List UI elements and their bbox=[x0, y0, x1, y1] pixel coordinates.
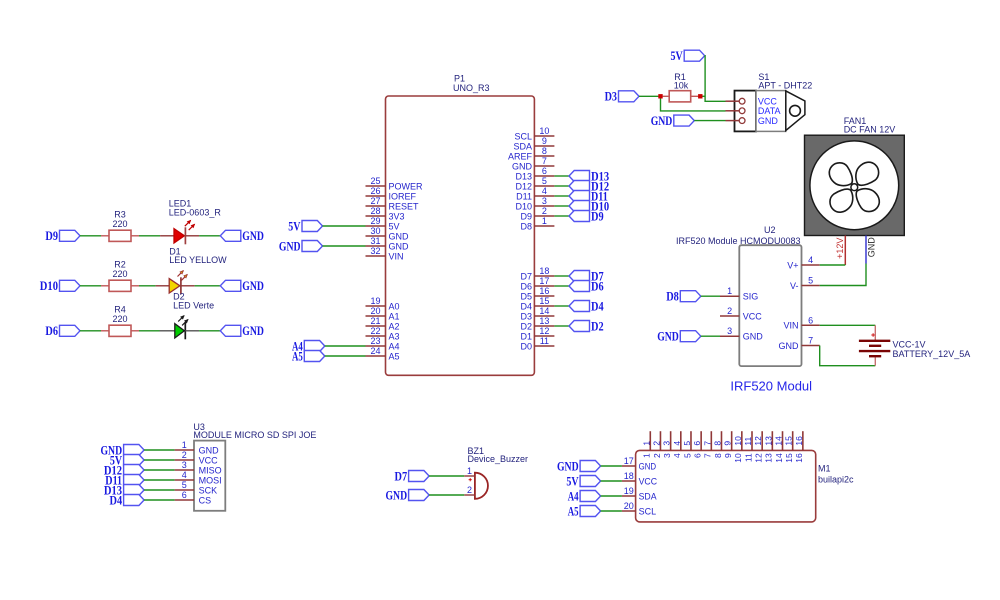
svg-text:D4: D4 bbox=[591, 299, 604, 313]
svg-text:7: 7 bbox=[703, 453, 713, 458]
svg-text:D4: D4 bbox=[110, 493, 123, 507]
svg-text:2: 2 bbox=[467, 485, 472, 495]
svg-text:VIN: VIN bbox=[389, 251, 404, 261]
svg-text:15: 15 bbox=[539, 296, 549, 306]
svg-text:4: 4 bbox=[182, 470, 187, 480]
svg-text:Device_Buzzer: Device_Buzzer bbox=[468, 454, 529, 464]
svg-text:10: 10 bbox=[733, 436, 743, 446]
svg-text:8: 8 bbox=[713, 453, 723, 458]
svg-text:9: 9 bbox=[723, 453, 733, 458]
svg-text:GND: GND bbox=[512, 161, 533, 171]
svg-text:7: 7 bbox=[702, 441, 712, 446]
svg-text:A5: A5 bbox=[292, 349, 303, 363]
svg-text:30: 30 bbox=[370, 226, 380, 236]
svg-text:1: 1 bbox=[642, 453, 652, 458]
svg-text:GND: GND bbox=[199, 445, 220, 455]
svg-text:SCL: SCL bbox=[514, 131, 532, 141]
svg-text:2: 2 bbox=[651, 441, 661, 446]
svg-text:D12: D12 bbox=[515, 181, 532, 191]
svg-text:17: 17 bbox=[539, 276, 549, 286]
svg-text:D6: D6 bbox=[45, 324, 58, 338]
svg-text:A0: A0 bbox=[389, 301, 400, 311]
svg-text:A4: A4 bbox=[568, 489, 579, 503]
svg-text:A1: A1 bbox=[389, 311, 400, 321]
svg-text:GND: GND bbox=[242, 229, 264, 243]
svg-text:D4: D4 bbox=[520, 301, 532, 311]
svg-text:D8: D8 bbox=[520, 221, 532, 231]
svg-text:11: 11 bbox=[743, 453, 753, 462]
svg-text:D7: D7 bbox=[395, 469, 408, 483]
svg-text:5: 5 bbox=[808, 276, 813, 286]
svg-text:32: 32 bbox=[370, 246, 380, 256]
svg-text:A5: A5 bbox=[389, 351, 400, 361]
svg-text:5V: 5V bbox=[288, 219, 300, 233]
svg-text:6: 6 bbox=[693, 453, 703, 458]
svg-text:15: 15 bbox=[784, 453, 794, 463]
svg-text:2: 2 bbox=[182, 450, 187, 460]
svg-text:20: 20 bbox=[624, 501, 634, 511]
svg-text:GND: GND bbox=[386, 488, 408, 502]
svg-text:P1: P1 bbox=[454, 74, 465, 84]
svg-text:29: 29 bbox=[370, 216, 380, 226]
svg-text:MODULE MICRO SD SPI JOE: MODULE MICRO SD SPI JOE bbox=[193, 430, 316, 440]
svg-text:AREF: AREF bbox=[508, 151, 533, 161]
svg-text:SCL: SCL bbox=[639, 506, 657, 516]
svg-text:3: 3 bbox=[542, 196, 547, 206]
svg-text:A3: A3 bbox=[389, 331, 400, 341]
svg-text:D10: D10 bbox=[40, 279, 58, 293]
svg-text:14: 14 bbox=[774, 453, 784, 463]
svg-text:GND: GND bbox=[866, 237, 876, 258]
svg-text:D10: D10 bbox=[515, 201, 532, 211]
svg-text:24: 24 bbox=[370, 346, 380, 356]
svg-text:D5: D5 bbox=[520, 291, 532, 301]
svg-text:220: 220 bbox=[112, 314, 127, 324]
svg-text:builapi2c: builapi2c bbox=[818, 475, 854, 485]
svg-text:8: 8 bbox=[542, 146, 547, 156]
svg-text:31: 31 bbox=[370, 236, 380, 246]
svg-text:220: 220 bbox=[112, 269, 127, 279]
svg-text:+12V: +12V bbox=[835, 238, 845, 259]
svg-text:LED-0603_R: LED-0603_R bbox=[169, 207, 222, 217]
svg-text:D8: D8 bbox=[666, 290, 679, 304]
svg-text:M1: M1 bbox=[818, 464, 831, 474]
svg-text:2: 2 bbox=[727, 306, 732, 316]
svg-text:LED YELLOW: LED YELLOW bbox=[169, 255, 227, 265]
svg-text:DC FAN 12V: DC FAN 12V bbox=[844, 124, 896, 134]
svg-text:19: 19 bbox=[624, 486, 634, 496]
svg-text:4: 4 bbox=[672, 441, 682, 446]
svg-text:V-: V- bbox=[790, 281, 799, 291]
svg-text:GND: GND bbox=[242, 324, 264, 338]
svg-text:GND: GND bbox=[639, 461, 657, 471]
svg-text:SDA: SDA bbox=[639, 491, 657, 501]
svg-text:5V: 5V bbox=[566, 474, 578, 488]
svg-text:GND: GND bbox=[758, 116, 779, 126]
svg-text:GND: GND bbox=[389, 241, 410, 251]
svg-text:19: 19 bbox=[370, 296, 380, 306]
svg-text:MISO: MISO bbox=[199, 465, 222, 475]
svg-text:25: 25 bbox=[370, 176, 380, 186]
svg-text:9: 9 bbox=[723, 441, 733, 446]
svg-text:APT - DHT22: APT - DHT22 bbox=[758, 80, 812, 90]
svg-text:UNO_R3: UNO_R3 bbox=[453, 83, 490, 93]
svg-text:A2: A2 bbox=[389, 321, 400, 331]
svg-text:27: 27 bbox=[370, 196, 380, 206]
svg-text:DATA: DATA bbox=[758, 106, 781, 116]
svg-text:9: 9 bbox=[542, 136, 547, 146]
svg-text:A5: A5 bbox=[568, 504, 579, 518]
svg-text:21: 21 bbox=[370, 316, 380, 326]
svg-text:18: 18 bbox=[624, 471, 634, 481]
svg-text:GND: GND bbox=[242, 279, 264, 293]
svg-text:D6: D6 bbox=[591, 279, 604, 293]
svg-text:D6: D6 bbox=[520, 281, 532, 291]
svg-text:D7: D7 bbox=[520, 271, 532, 281]
svg-text:11: 11 bbox=[743, 437, 753, 446]
svg-text:3: 3 bbox=[662, 453, 672, 458]
svg-text:1: 1 bbox=[727, 286, 732, 296]
svg-text:D9: D9 bbox=[591, 209, 604, 223]
svg-text:5: 5 bbox=[682, 453, 692, 458]
svg-text:IRF520 Modul: IRF520 Modul bbox=[730, 379, 812, 394]
svg-text:12: 12 bbox=[539, 326, 549, 336]
svg-text:MOSI: MOSI bbox=[199, 475, 222, 485]
svg-text:17: 17 bbox=[624, 456, 634, 466]
svg-text:12: 12 bbox=[753, 436, 763, 446]
svg-text:4: 4 bbox=[672, 453, 682, 458]
svg-text:28: 28 bbox=[370, 206, 380, 216]
svg-text:POWER: POWER bbox=[389, 181, 424, 191]
svg-text:GND: GND bbox=[743, 332, 764, 342]
svg-text:IOREF: IOREF bbox=[389, 191, 417, 201]
svg-text:7: 7 bbox=[808, 336, 813, 346]
svg-text:VCC: VCC bbox=[758, 97, 778, 107]
svg-text:1: 1 bbox=[467, 466, 472, 476]
svg-text:VIN: VIN bbox=[783, 321, 798, 331]
svg-text:5V: 5V bbox=[389, 221, 400, 231]
svg-text:14: 14 bbox=[774, 436, 784, 446]
svg-text:26: 26 bbox=[370, 186, 380, 196]
svg-text:VCC: VCC bbox=[639, 476, 658, 486]
svg-text:4: 4 bbox=[808, 255, 813, 265]
svg-text:SDA: SDA bbox=[513, 141, 532, 151]
svg-text:D11: D11 bbox=[516, 191, 532, 201]
svg-text:3: 3 bbox=[727, 326, 732, 336]
svg-text:8: 8 bbox=[712, 441, 722, 446]
svg-text:GND: GND bbox=[557, 459, 579, 473]
svg-text:GND: GND bbox=[279, 239, 301, 253]
svg-text:6: 6 bbox=[542, 166, 547, 176]
svg-text:D9: D9 bbox=[45, 229, 58, 243]
svg-text:D2: D2 bbox=[591, 319, 604, 333]
svg-text:VCC: VCC bbox=[199, 455, 219, 465]
svg-text:22: 22 bbox=[370, 326, 380, 336]
svg-text:3: 3 bbox=[182, 460, 187, 470]
svg-text:4: 4 bbox=[542, 186, 547, 196]
svg-text:10k: 10k bbox=[674, 80, 689, 90]
svg-text:10: 10 bbox=[733, 453, 743, 463]
svg-text:5: 5 bbox=[682, 441, 692, 446]
svg-text:3V3: 3V3 bbox=[389, 211, 405, 221]
svg-text:GND: GND bbox=[651, 114, 673, 128]
svg-text:5: 5 bbox=[542, 176, 547, 186]
svg-text:LED Verte: LED Verte bbox=[173, 301, 214, 311]
svg-text:D2: D2 bbox=[520, 321, 532, 331]
svg-text:BATTERY_12V_5A: BATTERY_12V_5A bbox=[893, 349, 971, 359]
svg-text:5V: 5V bbox=[671, 49, 683, 63]
svg-text:3: 3 bbox=[662, 441, 672, 446]
svg-text:220: 220 bbox=[112, 219, 127, 229]
svg-text:V+: V+ bbox=[787, 260, 798, 270]
svg-text:1: 1 bbox=[182, 440, 187, 450]
svg-text:18: 18 bbox=[539, 266, 549, 276]
svg-text:D3: D3 bbox=[520, 311, 532, 321]
svg-text:VCC: VCC bbox=[743, 311, 763, 321]
svg-text:D1: D1 bbox=[520, 331, 532, 341]
svg-text:16: 16 bbox=[539, 286, 549, 296]
svg-text:5: 5 bbox=[182, 480, 187, 490]
svg-text:13: 13 bbox=[539, 316, 549, 326]
svg-text:23: 23 bbox=[370, 336, 380, 346]
svg-text:D9: D9 bbox=[520, 211, 532, 221]
svg-text:D3: D3 bbox=[605, 90, 617, 104]
svg-text:1: 1 bbox=[641, 441, 651, 446]
svg-text:GND: GND bbox=[389, 231, 410, 241]
svg-text:16: 16 bbox=[794, 453, 804, 463]
svg-text:D13: D13 bbox=[515, 171, 532, 181]
svg-text:12: 12 bbox=[754, 453, 764, 463]
svg-text:CS: CS bbox=[199, 495, 212, 505]
svg-text:D0: D0 bbox=[520, 341, 532, 351]
svg-text:15: 15 bbox=[784, 436, 794, 446]
svg-text:A4: A4 bbox=[389, 341, 400, 351]
svg-text:2: 2 bbox=[542, 206, 547, 216]
svg-text:GND: GND bbox=[657, 330, 679, 344]
svg-text:6: 6 bbox=[808, 315, 813, 325]
svg-text:16: 16 bbox=[794, 436, 804, 446]
svg-text:14: 14 bbox=[539, 306, 549, 316]
svg-text:10: 10 bbox=[539, 126, 549, 136]
svg-text:13: 13 bbox=[763, 436, 773, 446]
svg-text:RESET: RESET bbox=[389, 201, 420, 211]
svg-text:6: 6 bbox=[692, 441, 702, 446]
svg-text:11: 11 bbox=[540, 336, 549, 346]
svg-text:1: 1 bbox=[542, 216, 547, 226]
svg-text:U2: U2 bbox=[764, 225, 776, 235]
svg-text:GND: GND bbox=[779, 341, 800, 351]
svg-text:7: 7 bbox=[542, 156, 547, 166]
svg-text:SCK: SCK bbox=[199, 485, 218, 495]
svg-text:20: 20 bbox=[370, 306, 380, 316]
svg-text:6: 6 bbox=[182, 490, 187, 500]
svg-text:SIG: SIG bbox=[743, 292, 759, 302]
svg-text:13: 13 bbox=[764, 453, 774, 463]
svg-text:2: 2 bbox=[652, 453, 662, 458]
